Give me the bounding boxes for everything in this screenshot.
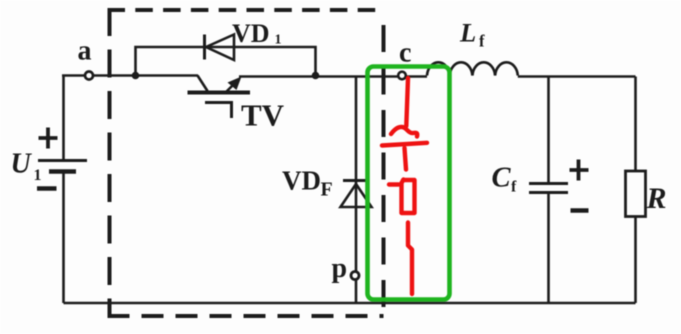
svg-text:f: f (511, 179, 517, 196)
svg-text:f: f (479, 32, 485, 51)
svg-text:TV: TV (241, 97, 285, 132)
svg-text:F: F (321, 179, 333, 201)
svg-text:p: p (332, 253, 348, 284)
svg-text:R: R (646, 182, 667, 215)
svg-text:VD: VD (232, 19, 270, 48)
svg-text:c: c (399, 38, 411, 69)
svg-text:VD: VD (282, 166, 321, 196)
svg-text:C: C (492, 162, 512, 193)
svg-text:L: L (459, 17, 476, 47)
svg-text:1: 1 (34, 167, 42, 184)
svg-text:a: a (78, 36, 92, 67)
svg-text:1: 1 (275, 33, 282, 48)
svg-text:U: U (11, 149, 33, 180)
